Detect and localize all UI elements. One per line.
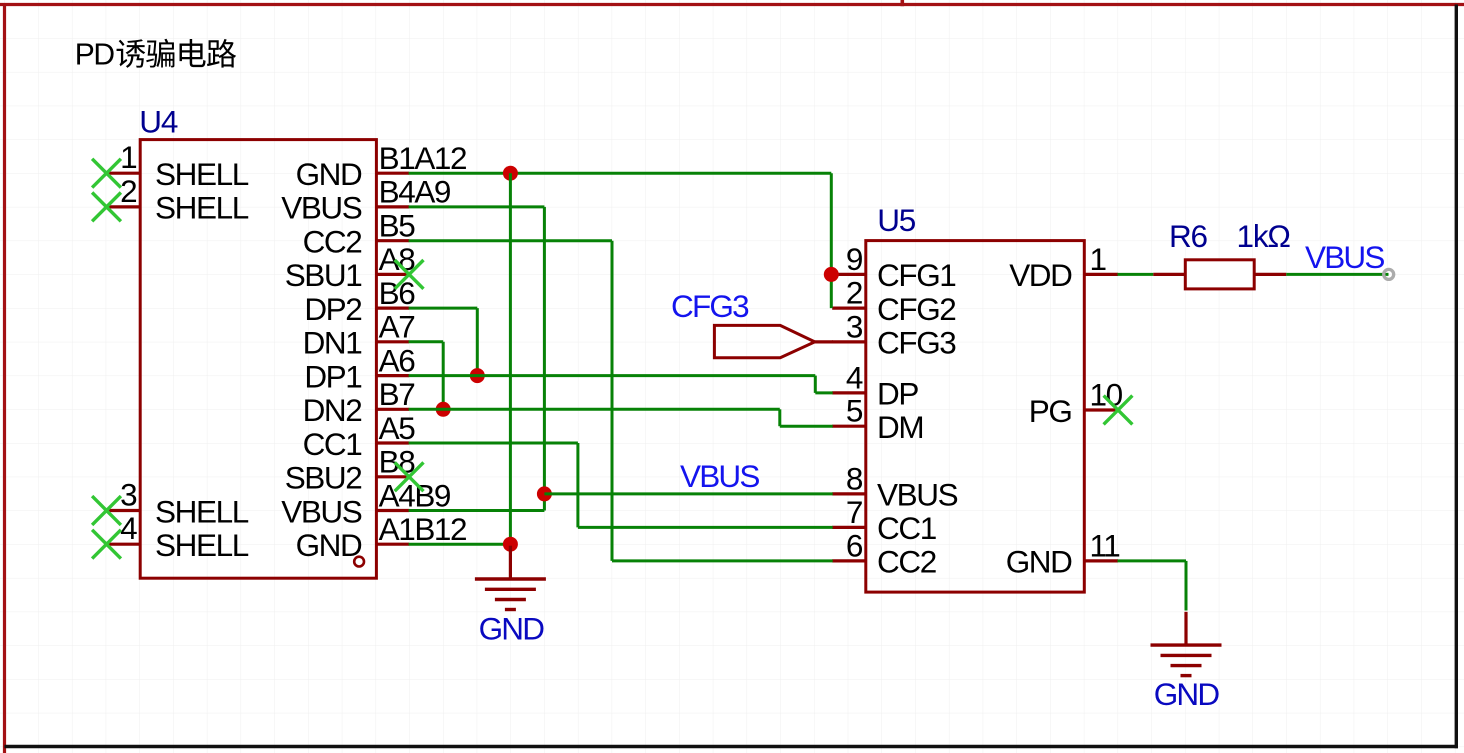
svg-text:SHELL: SHELL — [155, 156, 249, 192]
wire DN1 down to DN2 — [409, 342, 444, 410]
svg-text:GND: GND — [1154, 676, 1220, 712]
svg-text:DP2: DP2 — [304, 291, 361, 327]
U4 pin 1 SHELL — [107, 139, 249, 192]
svg-text:A6: A6 — [379, 342, 416, 378]
wire CC2: B5 to U5 pin 6 — [409, 241, 833, 561]
U5 pin 2 CFG2 — [832, 275, 955, 327]
svg-text:GND: GND — [296, 527, 362, 563]
svg-text:VDD: VDD — [1009, 257, 1072, 293]
canvas boundary right — [1455, 5, 1458, 749]
net label GND1 — [479, 611, 545, 647]
no-connect flag pin B8 — [395, 462, 424, 491]
svg-text:3: 3 — [120, 477, 137, 513]
U4 pin A6 DP1 — [304, 342, 415, 394]
svg-text:U4: U4 — [139, 103, 178, 139]
U4 pin B5 CC2 — [303, 208, 416, 260]
U4 pin B7 DN2 — [303, 376, 415, 428]
svg-text:6: 6 — [846, 527, 863, 563]
svg-text:DP1: DP1 — [304, 358, 361, 394]
svg-text:SHELL: SHELL — [155, 190, 249, 226]
U5 pin 5 DM — [832, 393, 923, 445]
U4 pin B1A12 GND — [296, 140, 467, 192]
wire CC1: A5 to U5 pin 7 — [409, 443, 833, 527]
U5 pin 6 CC2 — [832, 527, 936, 579]
junction VBUS — [537, 486, 552, 501]
U4 pin B4A9 VBUS — [281, 174, 451, 226]
R6 value 1kΩ — [1237, 218, 1291, 254]
wire R6 to VBUS port — [1286, 273, 1388, 276]
U5 pin 1 VDD — [1009, 241, 1118, 293]
svg-text:SBU1: SBU1 — [285, 257, 362, 293]
svg-text:GND: GND — [1006, 544, 1072, 580]
U5 reference designator — [877, 202, 916, 238]
svg-text:2: 2 — [120, 173, 136, 209]
wire DN2 to U5 pin 5 DM — [409, 409, 833, 426]
U4 reference designator — [139, 103, 178, 139]
wire GND vertical bus — [509, 173, 512, 544]
canvas boundary bottom — [5, 745, 1459, 749]
net label CFG3 — [671, 288, 749, 324]
wire DP1 to U5 pin 4 DP — [409, 376, 833, 393]
wire VDD to R6 — [1118, 273, 1154, 276]
U4 pin A5 CC1 — [303, 410, 416, 462]
wire VBUS to U5 pin 8 — [544, 492, 832, 495]
U5 pin 9 CFG1 — [832, 241, 955, 293]
svg-text:VBUS: VBUS — [877, 477, 958, 513]
U4 pin A4B9 VBUS — [281, 477, 451, 529]
svg-text:1kΩ: 1kΩ — [1237, 218, 1291, 254]
svg-text:SBU2: SBU2 — [285, 460, 362, 496]
no-connect flag pin 2 — [92, 193, 121, 222]
svg-text:DN2: DN2 — [303, 392, 362, 428]
svg-text:SHELL: SHELL — [155, 527, 249, 563]
net label VBUS right — [1305, 239, 1384, 275]
net port pad VBUS — [1384, 269, 1394, 279]
svg-text:R6: R6 — [1169, 218, 1208, 254]
junction CFG1 — [824, 267, 839, 282]
U5 pin 7 CC1 — [832, 494, 936, 546]
svg-text:4: 4 — [846, 359, 863, 395]
svg-text:3: 3 — [846, 308, 863, 344]
svg-text:CFG1: CFG1 — [877, 257, 955, 293]
sheet partition tick — [900, 0, 904, 6]
svg-text:DN1: DN1 — [303, 325, 362, 361]
svg-text:CFG3: CFG3 — [671, 288, 749, 324]
net label GND2 — [1154, 676, 1220, 712]
svg-text:GND: GND — [479, 611, 545, 647]
svg-text:DP: DP — [877, 376, 918, 412]
ground symbol GND2 — [1151, 612, 1222, 676]
R6 designator — [1169, 218, 1208, 254]
svg-text:CC1: CC1 — [877, 510, 936, 546]
svg-text:A7: A7 — [379, 309, 415, 345]
no-connect flag pin A8 — [395, 260, 424, 289]
no-connect flag pin 4 — [92, 530, 121, 559]
svg-text:2: 2 — [846, 275, 862, 311]
svg-text:1: 1 — [120, 139, 136, 175]
title text PD诱骗电路 — [75, 37, 236, 72]
svg-text:B7: B7 — [379, 376, 415, 412]
U5 pin 10 PG — [1029, 377, 1123, 429]
wire U5 pin 11 to GND symbol — [1118, 561, 1187, 611]
svg-text:VBUS: VBUS — [281, 493, 362, 529]
resistor R6 — [1153, 260, 1286, 289]
svg-text:4: 4 — [120, 510, 137, 546]
svg-text:8: 8 — [846, 460, 863, 496]
junction GND at A1B12 — [503, 537, 518, 552]
wire GND: B1A12 to CFG1/CFG2 — [409, 173, 832, 308]
U4 pin 3 SHELL — [107, 477, 249, 530]
svg-text:GND: GND — [296, 156, 362, 192]
svg-text:CC2: CC2 — [303, 224, 362, 260]
U4 pin B8 SBU2 — [285, 444, 416, 496]
svg-text:CFG3: CFG3 — [877, 325, 956, 361]
U4 pin B6 DP2 — [304, 275, 415, 327]
U4 pin 2 SHELL — [107, 173, 249, 226]
svg-text:B5: B5 — [379, 208, 416, 244]
svg-text:1: 1 — [1090, 241, 1106, 277]
IC U5 body — [866, 241, 1085, 592]
wire A1B12 to GND symbol — [409, 543, 511, 546]
svg-text:PD: PD — [75, 37, 114, 72]
wire VBUS: A4B9 row — [409, 509, 545, 512]
svg-text:B6: B6 — [379, 275, 416, 311]
junction GND net at B1A12 row — [503, 166, 518, 181]
no-connect flag pin 3 — [92, 496, 121, 525]
svg-text:CC1: CC1 — [303, 426, 362, 462]
U5 pin 3 CFG3 — [832, 308, 956, 360]
svg-text:VBUS: VBUS — [680, 458, 759, 494]
svg-text:9: 9 — [846, 241, 863, 277]
svg-text:A1B12: A1B12 — [379, 511, 467, 547]
connector U4 body — [140, 140, 376, 579]
svg-text:5: 5 — [846, 393, 863, 429]
U4 polarity circle — [354, 557, 364, 567]
svg-text:VBUS: VBUS — [281, 190, 362, 226]
U4 pin 4 SHELL — [107, 510, 249, 563]
ground symbol GND1 — [475, 546, 546, 610]
junction DP — [470, 368, 485, 383]
no-connect flag pin 10 PG — [1104, 396, 1133, 425]
U4 pin A1B12 GND — [296, 511, 467, 563]
svg-text:VBUS: VBUS — [1305, 239, 1384, 275]
svg-text:11: 11 — [1090, 527, 1120, 563]
svg-text:CC2: CC2 — [877, 544, 936, 580]
svg-text:B4A9: B4A9 — [379, 174, 451, 210]
net port CFG3 flag — [714, 325, 833, 357]
svg-text:7: 7 — [846, 494, 862, 530]
U5 pin 4 DP — [832, 359, 918, 411]
U4 pin A7 DN1 — [303, 309, 415, 361]
svg-text:SHELL: SHELL — [155, 493, 249, 529]
U5 pin 8 VBUS — [832, 460, 957, 512]
junction DM — [436, 402, 451, 417]
no-connect flag pin 1 — [92, 159, 121, 188]
svg-text:U5: U5 — [877, 202, 916, 238]
wire DP2 down to DP1 — [409, 308, 478, 376]
svg-text:10: 10 — [1090, 377, 1123, 413]
svg-text:CFG2: CFG2 — [877, 291, 955, 327]
svg-text:DM: DM — [877, 409, 923, 445]
svg-text:PG: PG — [1029, 393, 1072, 429]
U5 pin 11 GND — [1006, 527, 1120, 579]
U4 pin A8 SBU1 — [285, 241, 416, 293]
svg-text:B1A12: B1A12 — [379, 140, 467, 176]
wire VBUS: B4A9 down — [409, 207, 545, 511]
svg-text:A5: A5 — [379, 410, 416, 446]
net label VBUS mid — [680, 458, 759, 494]
